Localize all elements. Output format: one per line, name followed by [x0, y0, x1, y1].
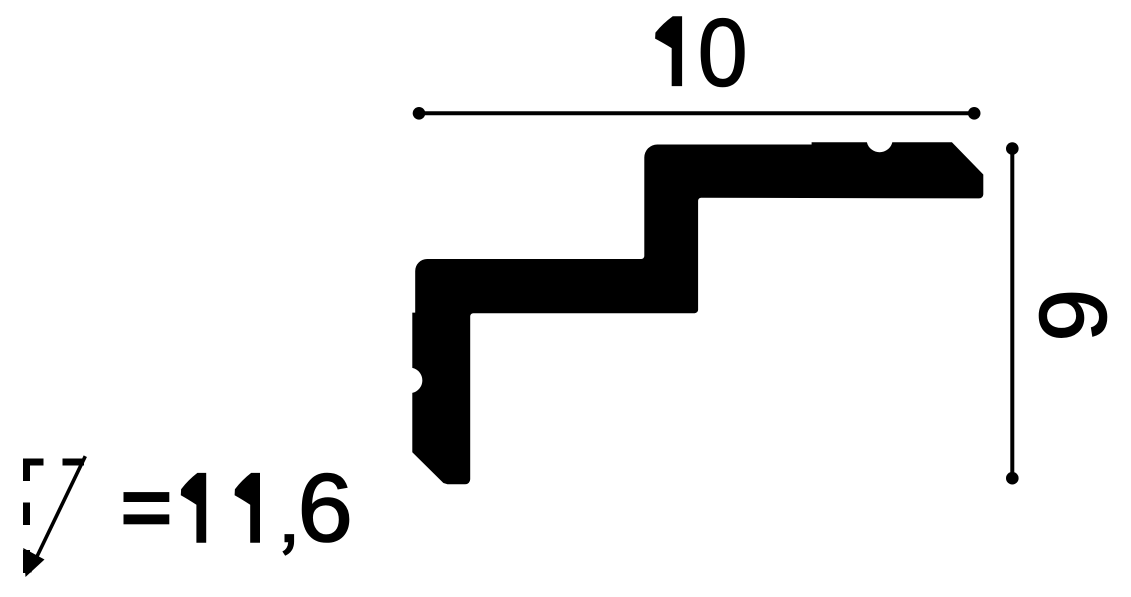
right dimension line [1010, 149, 1014, 479]
dimension label 10 : digit 0 [698, 0, 748, 106]
right dimension bottom dot [1006, 472, 1019, 485]
cornice profile cross-section [412, 142, 983, 484]
label digit 6 [298, 453, 353, 561]
svg-text:9: 9 [1021, 289, 1127, 342]
label comma [282, 534, 294, 556]
top dimension left dot [413, 107, 426, 120]
label digit 1 (second) [235, 473, 260, 543]
label = sign top bar [124, 492, 170, 502]
label digit 1 (first) [181, 473, 206, 543]
svg-text:6: 6 [298, 453, 353, 561]
diagonal-length icon: diagonal arrow line [30, 456, 86, 572]
diagonal-length icon: dashed corner [27, 462, 85, 573]
right dimension top dot [1006, 142, 1019, 155]
diagonal-length icon: arrowhead [23, 548, 44, 577]
top dimension right dot [968, 107, 981, 120]
svg-text:0: 0 [698, 0, 748, 106]
dimension label 10 : digit 1 [655, 16, 682, 86]
label = sign bottom bar [124, 514, 170, 524]
top dimension line [419, 111, 974, 115]
